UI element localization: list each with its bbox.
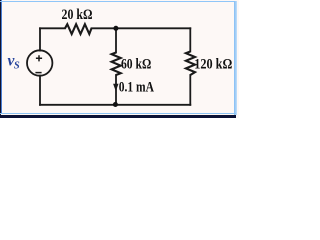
wire bottom <box>40 104 190 106</box>
plus sign <box>36 55 42 61</box>
current arrow head <box>113 84 118 92</box>
svg-text:20 kΩ: 20 kΩ <box>62 7 93 23</box>
svg-text:S: S <box>14 61 20 72</box>
node A junction dot top <box>113 26 118 31</box>
wire top segment (20k resistor to node A) <box>92 27 117 29</box>
resistor 120 kOhm zigzag <box>186 52 195 76</box>
svg-text:0.1 mA: 0.1 mA <box>119 79 154 95</box>
wire top segment left (source to 20k resistor) <box>40 27 65 29</box>
wire middle branch <box>115 28 117 105</box>
svg-text:120 kΩ: 120 kΩ <box>194 56 232 72</box>
minus sign <box>35 72 41 74</box>
node B junction dot bottom <box>113 102 118 107</box>
label vS <box>8 53 20 72</box>
voltage source VS circle <box>27 50 52 75</box>
resistor 60 kOhm zigzag <box>112 53 121 76</box>
wire left branch vertical <box>39 28 41 105</box>
wire top segment (node A to right branch) <box>116 27 190 29</box>
wire right branch <box>189 28 191 105</box>
resistor 20 kOhm zigzag <box>65 24 92 34</box>
svg-text:60 kΩ: 60 kΩ <box>121 56 151 72</box>
